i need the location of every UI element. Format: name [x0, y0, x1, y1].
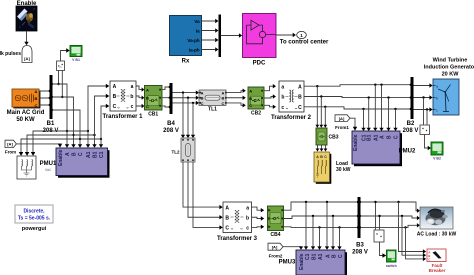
wire PDC to outport: [276, 33, 296, 37]
transmission line TL2: [171, 138, 195, 162]
svg-text:clk pulses: clk pulses: [0, 51, 21, 57]
svg-text:CB2: CB2: [251, 111, 261, 117]
svg-text:Enable: Enable: [17, 1, 37, 7]
wires CB3 to Load: [316, 145, 328, 152]
svg-text:C: C: [338, 254, 344, 258]
subsystem PMU2: [352, 131, 416, 166]
svg-text:c: c: [436, 109, 438, 113]
circuit breaker CB4: [268, 206, 284, 238]
svg-text:B: B: [298, 95, 302, 101]
subsystem PMU3: [279, 250, 347, 275]
svg-text:powergui: powergui: [22, 226, 47, 232]
breaker block Fault Breaker: [427, 249, 446, 273]
svg-text:a: a: [246, 205, 249, 211]
scope V B2: [431, 142, 443, 161]
svg-text:Breaker: Breaker: [429, 268, 446, 273]
svg-text:a: a: [281, 84, 284, 90]
wires taps to vm2: [424, 98, 428, 125]
wire riser to Transformer1 B and PMU1 B1: [92, 94, 109, 148]
svg-text:Ia-ph: Ia-ph: [189, 47, 200, 52]
svg-text:B: B: [332, 254, 338, 258]
svg-text:A: A: [298, 84, 302, 90]
svg-text:208 V: 208 V: [352, 250, 368, 256]
voltage measurement vm1: [57, 61, 65, 71]
wire vm1 taps to bus B1 nodes: [57, 71, 63, 99]
transformer block Transformer 1: [102, 81, 143, 120]
scope V B1: [70, 46, 82, 63]
svg-text:Discrete,: Discrete,: [23, 209, 45, 215]
svg-text:Induction Generator: Induction Generator: [424, 65, 474, 71]
wires taps down to TL2 inputs: [181, 93, 195, 138]
wire B3 run to Fault Breaker B: [402, 216, 426, 257]
circuit breaker CB2: [248, 87, 264, 117]
svg-text:Va1: Va1: [45, 168, 51, 172]
wires taps down to CB3: [315, 86, 327, 128]
svg-text:From2: From2: [269, 254, 283, 259]
svg-text:B: B: [249, 96, 252, 101]
wire From1 to PMU2 Enable: [350, 118, 357, 131]
svg-text:c: c: [131, 104, 134, 110]
svg-text:B: B: [72, 152, 78, 156]
svg-text:B4: B4: [167, 121, 175, 127]
wire mux to PDC: [221, 33, 243, 37]
bus B3: [352, 197, 368, 256]
wire B1 tap phase A to PMU1 input A: [52, 84, 69, 148]
wire From2 to PMU3 Enable: [283, 246, 303, 249]
wires Main AC Grid outputs to bus B1: [39, 90, 51, 106]
svg-text:AC Load : 30 kW: AC Load : 30 kW: [417, 232, 457, 238]
svg-text:c: c: [246, 226, 249, 232]
svg-text:Ts = 5e-005 s.: Ts = 5e-005 s.: [18, 216, 51, 222]
svg-text:A1: A1: [373, 134, 379, 141]
svg-text:Transformer 3: Transformer 3: [217, 236, 258, 242]
svg-text:C: C: [78, 152, 84, 156]
svg-text:TL2: TL2: [171, 150, 179, 155]
wires taps to vm3: [374, 201, 380, 230]
svg-text:CB4: CB4: [270, 232, 280, 238]
from tag [A] From2: [268, 243, 283, 258]
svg-text:Main AC Grid: Main AC Grid: [7, 110, 45, 116]
wire tap down to PMU2 A: [379, 85, 383, 131]
three-phase measurement block vm1grid: [17, 153, 57, 179]
svg-text:30 kW: 30 kW: [336, 167, 351, 173]
wires B2 to Wind Turbine inputs: [414, 83, 433, 111]
load block AC Load 30 kW: [417, 207, 457, 238]
svg-text:TL1: TL1: [208, 107, 217, 113]
wires Transformer3 to CB4: [252, 207, 265, 229]
wire B4 to TL1 B with tap to TL2: [173, 96, 200, 100]
svg-text:A: A: [249, 89, 252, 94]
wire T2 output B to bus B2 with taps: [304, 95, 411, 99]
wires Transformer1 outputs to CB1: [136, 86, 144, 108]
svg-text:C1: C1: [305, 253, 311, 260]
svg-text:Wind Turbine: Wind Turbine: [433, 58, 468, 64]
svg-text:Transformer 1: Transformer 1: [102, 114, 143, 120]
svg-text:b: b: [246, 216, 249, 222]
wire TL2 output a to Transformer3 A: [183, 162, 223, 209]
svg-text:B2: B2: [407, 121, 415, 127]
wire B3 run to Fault Breaker A: [399, 202, 427, 254]
wire B1 tap phase B to PMU1 input B: [52, 97, 76, 148]
svg-text:V B1: V B1: [72, 58, 80, 62]
svg-text:C: C: [298, 105, 302, 111]
svg-text:Rx: Rx: [182, 59, 190, 65]
from tag [A] From: [5, 140, 17, 154]
wire riser to Transformer1 A and PMU1 A1: [86, 84, 110, 148]
svg-text:208 V: 208 V: [163, 128, 179, 134]
circuit breaker CB3: [316, 128, 339, 145]
svg-text:a: a: [436, 85, 438, 89]
wire tap down to PMU2 B: [386, 98, 390, 131]
svg-text:b: b: [130, 94, 133, 100]
wire T2 output C to bus B2 with taps: [304, 106, 411, 111]
wire run to vm block phase C: [19, 138, 102, 156]
svg-text:A1: A1: [86, 151, 92, 158]
svg-text:A1: A1: [318, 253, 324, 260]
svg-text:[A]: [A]: [24, 56, 30, 61]
receiver block Rx: [170, 16, 202, 65]
wire CB4 a to bus B3 with PMU3 taps: [284, 201, 358, 210]
block PDC: [243, 14, 277, 67]
wire Enable to clk pulses tag: [24, 31, 28, 45]
svg-text:CB3: CB3: [328, 135, 338, 141]
svg-text:A: A: [380, 135, 386, 139]
scope switch: [386, 250, 397, 268]
subsystem PMU1: [56, 148, 110, 178]
wire B3 to AC Load phase C: [361, 223, 420, 228]
svg-text:C: C: [225, 226, 229, 232]
generator block Wind Turbine Induction Generator: [424, 58, 474, 116]
svg-text:208 V: 208 V: [403, 128, 419, 134]
svg-text:[A]: [A]: [272, 245, 278, 250]
svg-text:B: B: [146, 96, 149, 101]
wire vm2 to scope V B2: [425, 135, 431, 151]
wire B3 to AC Load phase B: [361, 215, 420, 220]
svg-text:Transformer 2: Transformer 2: [271, 115, 312, 121]
svg-text:Va-ph: Va-ph: [187, 38, 200, 43]
svg-text:a: a: [131, 84, 134, 90]
svg-text:C1: C1: [99, 151, 105, 158]
svg-text:B: B: [113, 94, 117, 100]
svg-text:A: A: [225, 205, 229, 211]
svg-text:Enable: Enable: [58, 149, 64, 166]
svg-text:C: C: [249, 103, 252, 108]
wire tap down to PMU2 C1: [361, 109, 365, 131]
svg-text:Enable: Enable: [353, 134, 359, 151]
svg-text:B1: B1: [93, 151, 99, 158]
svg-text:PMU3: PMU3: [279, 260, 296, 266]
svg-text:A: A: [65, 152, 71, 156]
wire run to vm block phase B: [25, 134, 96, 156]
svg-text:[A]: [A]: [7, 142, 13, 147]
from tag [A] From1: [335, 115, 350, 130]
powergui block: [15, 205, 53, 232]
svg-text:C: C: [222, 101, 225, 106]
svg-text:C: C: [113, 104, 117, 110]
wire riser to Transformer1 C and PMU1 C1: [99, 104, 110, 148]
svg-text:From: From: [5, 150, 16, 155]
wire CB4 b to bus B3 with PMU3 taps: [284, 215, 358, 219]
svg-text:Ia: Ia: [196, 29, 200, 34]
wire B3 to AC Load phase A: [361, 201, 420, 213]
svg-text:V B2: V B2: [433, 157, 441, 161]
svg-text:B: B: [225, 216, 229, 222]
circuit breaker CB1: [145, 86, 163, 118]
wires taps down to PMU3 inputs: [304, 202, 342, 250]
bus B4: [163, 83, 179, 134]
svg-text:B1: B1: [367, 134, 373, 141]
wire B4 to TL1 C with tap to TL2: [173, 101, 200, 105]
svg-text:A: A: [113, 84, 117, 90]
wire B1 tap phase C to PMU1 input C: [52, 110, 82, 148]
bus B1: [43, 75, 59, 134]
wire From to PMU1 Enable: [16, 144, 62, 148]
voltage measurement vm3: [374, 230, 384, 242]
wire T2 output A to bus B2 with taps: [304, 84, 411, 88]
wire TL2 output b to Transformer3 B: [188, 162, 223, 219]
outport 1 To control center: [280, 31, 329, 45]
wires CB2 to Transformer 2: [264, 84, 276, 109]
wire tap down to PMU2 B1: [367, 98, 371, 131]
svg-text:B: B: [35, 96, 38, 101]
svg-text:b: b: [436, 97, 438, 101]
svg-text:B3: B3: [356, 243, 364, 249]
svg-text:From1: From1: [335, 125, 349, 130]
wires Rx outputs to mux: [202, 19, 219, 52]
svg-text:A: A: [146, 88, 149, 93]
svg-text:C: C: [201, 101, 204, 106]
wire B3 run to Fault Breaker C: [406, 227, 427, 261]
svg-text:To control center: To control center: [280, 39, 329, 45]
svg-text:PMU2: PMU2: [399, 149, 416, 155]
svg-text:c: c: [281, 105, 284, 111]
svg-text:PMU1: PMU1: [40, 161, 57, 167]
wire vm1 to scope: [61, 48, 70, 61]
svg-text:PDC: PDC: [253, 61, 266, 67]
svg-text:B1: B1: [47, 121, 55, 127]
svg-text:B: B: [387, 135, 393, 139]
svg-text:50 KW: 50 KW: [16, 117, 35, 123]
mux bar: [219, 15, 222, 58]
svg-text:C: C: [35, 103, 38, 108]
svg-text:[A]: [A]: [339, 116, 345, 121]
svg-text:20 KW: 20 KW: [442, 72, 460, 78]
bus B2: [403, 77, 419, 134]
wire B4 to TL1 A with tap to TL2: [173, 90, 200, 94]
source block Main AC Grid 50 KW: [7, 89, 45, 123]
transformer block Transformer 2: [271, 81, 312, 121]
goto tag clk pulses: [0, 46, 32, 63]
wire CB4 c to bus B3 with PMU3 taps: [284, 226, 358, 228]
svg-text:B1: B1: [312, 253, 318, 260]
svg-text:Va: Va: [194, 19, 200, 24]
wire run to vm block phase A: [31, 130, 89, 156]
svg-text:C: C: [146, 104, 149, 109]
wire vm3 to scope switch: [380, 242, 387, 258]
transmission line TL1: [199, 90, 227, 113]
svg-text:switch: switch: [386, 264, 397, 268]
satellite image block Enable: [16, 1, 37, 31]
svg-text:C: C: [394, 135, 400, 139]
wire TL2 output c to Transformer3 C: [193, 162, 223, 230]
wire tap down to PMU2 A1: [373, 85, 377, 131]
wire tap down to PMU2 C: [393, 109, 397, 131]
svg-text:CB1: CB1: [148, 112, 158, 118]
wires CB1 outputs to bus B4: [162, 86, 171, 108]
svg-text:b: b: [281, 95, 284, 101]
voltage measurement vm2: [420, 125, 430, 135]
transformer block Transformer 3: [217, 202, 258, 242]
wires TL1 to CB2: [226, 89, 246, 108]
svg-text:A: A: [35, 89, 38, 94]
load block Load 30 kW: [314, 152, 351, 184]
